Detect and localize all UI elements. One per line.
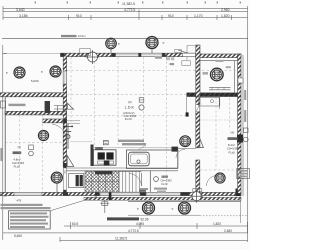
kitchen note text above sink (118, 140, 144, 142)
dark sq right of sink (172, 147, 178, 152)
svg-text:φ: φ (6, 71, 8, 75)
fridge (68, 174, 83, 188)
door arcs (129, 174, 142, 187)
svg-text:478: 478 (17, 199, 22, 203)
shield label + text (103, 140, 108, 144)
ticks (2, 6, 4, 20)
diagonal canopy line (178, 50, 189, 53)
svg-text:4,772.5: 4,772.5 (128, 229, 139, 233)
svg-text:φ: φ (137, 207, 139, 211)
bedroom3 label (227, 131, 239, 155)
right exterior wall lower (238, 97, 241, 194)
svg-text:12.0m: 12.0m (78, 34, 86, 38)
bedroom2 label (12, 145, 24, 168)
band under closet (43, 119, 67, 123)
svg-text:52.96: 52.96 (141, 218, 149, 222)
svg-text:1,820: 1,820 (221, 14, 230, 18)
svg-text:1,820: 1,820 (213, 222, 221, 226)
svg-text:3,185: 3,185 (19, 14, 28, 18)
svg-text:1,170: 1,170 (194, 14, 203, 18)
svg-text:2,480: 2,480 (224, 229, 232, 233)
svg-text:(2): (2) (128, 100, 132, 104)
bottom exterior wall (0, 189, 241, 197)
svg-text:11,382.5: 11,382.5 (115, 236, 127, 240)
small box left edge (1, 101, 6, 108)
svg-text:FL±0: FL±0 (162, 182, 168, 186)
svg-text:(4): (4) (231, 131, 234, 135)
svg-text:5,000: 5,000 (31, 79, 39, 83)
svg-text:(3): (3) (18, 145, 21, 149)
svg-text:φ: φ (172, 207, 174, 211)
svg-text:4,772.5: 4,772.5 (124, 8, 135, 12)
svg-text:11,382.5: 11,382.5 (122, 2, 135, 6)
svg-text:FL±0: FL±0 (14, 164, 21, 168)
left balcony band 2 (5, 111, 67, 115)
svg-text:910: 910 (168, 14, 174, 18)
svg-text:L.D.K: L.D.K (125, 106, 135, 110)
vent pole symbol (64, 124, 73, 150)
left exterior wall (63, 56, 66, 167)
svg-text:2,960: 2,960 (221, 8, 230, 12)
svg-text:4,095: 4,095 (136, 222, 144, 226)
step shape right of post (54, 106, 64, 113)
svg-text:φ: φ (41, 70, 43, 74)
left balcony band 1 (0, 93, 67, 97)
circle-cross benchmark on top wall (86, 50, 100, 64)
svg-text:φ: φ (118, 42, 120, 46)
top wall of left section (61, 53, 197, 56)
svg-text:FL±0: FL±0 (229, 151, 236, 155)
counter edges (92, 147, 178, 149)
balcony label (9, 104, 26, 106)
svg-text:φ: φ (163, 41, 165, 45)
svg-text:5,460: 5,460 (14, 234, 22, 238)
right thick band (under top-right room) (187, 93, 242, 97)
svg-text:FL±0: FL±0 (125, 117, 132, 121)
window thin part (116, 53, 139, 56)
svg-text:60.5: 60.5 (72, 222, 78, 226)
stove block (91, 145, 117, 167)
closet divider post in left room (45, 101, 50, 113)
svg-text:CH=2393: CH=2393 (161, 179, 173, 183)
interior wall x196-200 below band (196, 97, 200, 148)
svg-text:910: 910 (76, 14, 82, 18)
sink (126, 150, 177, 168)
top-right room walls (196, 45, 242, 97)
LDK label (123, 100, 136, 121)
svg-text:3,640: 3,640 (16, 8, 25, 12)
triangles (vent marks) (67, 156, 74, 167)
left thin outer wall (4, 97, 6, 195)
